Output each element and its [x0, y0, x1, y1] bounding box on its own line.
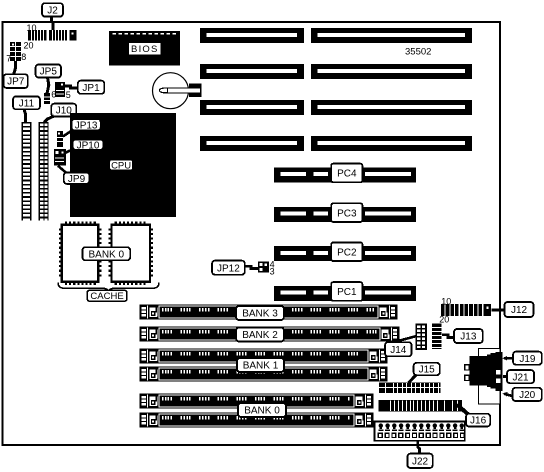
svg-text:J20: J20 — [519, 390, 536, 401]
PCI slot PC2 — [274, 246, 416, 261]
svg-text:6: 6 — [51, 89, 56, 99]
cache SRAM chip right — [109, 222, 154, 285]
CPU text box — [110, 160, 133, 172]
J14 leader — [387, 336, 417, 344]
JP9 leader — [58, 166, 67, 174]
battery clip arm — [160, 88, 201, 93]
svg-text:3: 3 — [270, 267, 275, 277]
label PC4 — [331, 164, 362, 183]
keyboard DIN connector — [465, 352, 503, 391]
connector J12 pin header — [441, 304, 491, 316]
jumper block JP5 — [44, 93, 50, 104]
svg-text:7: 7 — [6, 54, 11, 64]
label JP10 — [73, 139, 104, 151]
connector J11 — [21, 122, 31, 221]
svg-text:PC4: PC4 — [337, 169, 357, 180]
jumper block JP7 — [10, 42, 21, 61]
svg-text:JP7: JP7 — [7, 77, 25, 88]
ISA slot 4 left segment — [200, 136, 304, 151]
svg-text:J13: J13 — [460, 332, 477, 343]
svg-text:BANK 3: BANK 3 — [242, 309, 278, 320]
label J14 — [385, 342, 412, 356]
JP1 leader — [65, 86, 79, 88]
ISA slot 2 right segment — [311, 64, 472, 79]
svg-text:BANK 0: BANK 0 — [244, 406, 280, 417]
label JP9 — [64, 172, 90, 184]
SIMM socket BANK 1 upper — [140, 349, 387, 363]
connector J10 — [39, 122, 49, 221]
svg-text:J12: J12 — [511, 305, 528, 316]
label BANK 0 simm — [238, 403, 286, 417]
JP10 leader — [65, 149, 74, 153]
svg-text:BIOS: BIOS — [131, 44, 159, 55]
ISA slot 1 right segment — [311, 28, 472, 43]
svg-text:20: 20 — [24, 41, 34, 51]
svg-text:20: 20 — [439, 315, 449, 325]
label PC1 — [331, 282, 362, 301]
label J15 — [414, 363, 440, 376]
svg-text:J10: J10 — [56, 106, 73, 117]
svg-text:BANK 2: BANK 2 — [242, 330, 278, 341]
label J11 — [13, 96, 40, 109]
label J16 — [466, 414, 490, 427]
svg-text:10: 10 — [441, 296, 451, 306]
J21 leader — [503, 374, 509, 378]
label J22 — [407, 454, 432, 468]
SIMM socket BANK 0 lower — [140, 413, 373, 427]
label JP5 — [36, 64, 61, 77]
svg-text:PC1: PC1 — [337, 287, 357, 298]
JP12 leader — [245, 266, 259, 268]
connector J14 — [416, 325, 426, 349]
BIOS text — [129, 43, 160, 55]
label CACHE — [87, 290, 127, 302]
connector J13 — [432, 324, 442, 349]
svg-text:BANK 0: BANK 0 — [89, 249, 125, 260]
svg-text:J16: J16 — [470, 416, 487, 427]
label JP7 — [4, 74, 28, 88]
jumper block JP12 — [258, 262, 269, 273]
svg-text:J14: J14 — [390, 345, 407, 356]
svg-text:5: 5 — [66, 90, 71, 100]
label JP1 — [78, 81, 105, 94]
svg-text:JP1: JP1 — [82, 83, 100, 94]
svg-text:J21: J21 — [512, 372, 529, 383]
svg-text:35502: 35502 — [405, 47, 431, 58]
label J19 — [513, 352, 542, 365]
CPU U1 — [70, 113, 176, 217]
SIMM socket BANK 1 lower — [140, 367, 387, 381]
J16 leader — [457, 405, 470, 417]
jumper block JP13 — [57, 131, 63, 147]
svg-text:CPU: CPU — [111, 160, 131, 171]
J11 leader — [24, 109, 26, 122]
label BANK 3 — [236, 306, 284, 320]
J19 leader — [503, 356, 515, 361]
label BANK 2 — [236, 328, 284, 342]
JP13 leader — [63, 130, 74, 137]
svg-text:J11: J11 — [19, 98, 35, 109]
label J12 — [505, 302, 534, 317]
J22 leader — [418, 441, 420, 454]
svg-text:8: 8 — [21, 52, 26, 62]
J20 leader — [503, 392, 514, 397]
label PC3 — [331, 203, 362, 222]
svg-text:JP10: JP10 — [77, 140, 100, 151]
svg-text:JP9: JP9 — [68, 174, 86, 185]
ISA slot 3 right segment — [311, 100, 472, 115]
PCI slot PC4 — [274, 167, 416, 182]
connector J22 — [375, 421, 465, 440]
SIMM socket BANK 3 — [140, 305, 397, 319]
label BANK 0 cache — [82, 247, 130, 260]
label J21 — [507, 370, 534, 383]
ISA slot 4 right segment — [311, 136, 472, 151]
svg-text:PC3: PC3 — [337, 208, 357, 219]
svg-text:J2: J2 — [47, 6, 58, 17]
connector J2 pin header — [28, 14, 77, 41]
SIMM socket BANK 2 — [140, 327, 399, 341]
svg-text:JP5: JP5 — [40, 67, 58, 78]
J10 leader — [44, 116, 54, 123]
svg-text:J22: J22 — [412, 456, 429, 467]
label JP13 — [72, 119, 101, 131]
label JP12 — [212, 261, 245, 275]
label BANK 1 — [237, 358, 284, 372]
keyboard bracket outline — [479, 349, 501, 405]
JP7 leader — [14, 61, 16, 75]
svg-text:J19: J19 — [519, 354, 536, 365]
label J2 — [42, 3, 63, 16]
cache SRAM chip left — [59, 222, 102, 285]
svg-text:JP13: JP13 — [75, 120, 98, 131]
label J20 — [513, 388, 542, 401]
JP5 leader — [47, 78, 49, 94]
label PC2 — [331, 242, 362, 261]
svg-text:J15: J15 — [419, 365, 436, 376]
ISA slot 2 left segment — [200, 64, 304, 79]
jumper block JP10 — [54, 149, 66, 166]
ISA slot 1 left segment — [200, 28, 304, 43]
connector J16 — [379, 400, 463, 412]
battery holder block — [189, 84, 202, 98]
PCI slot PC1 — [274, 286, 416, 301]
svg-text:PC2: PC2 — [337, 247, 357, 258]
label J10 — [51, 104, 76, 117]
label J13 — [454, 329, 483, 343]
svg-text:10: 10 — [27, 23, 37, 33]
ISA slot 3 left segment — [200, 100, 304, 115]
battery B1 — [153, 73, 189, 109]
jumper block JP1 — [55, 82, 65, 97]
connector J15 — [379, 383, 441, 394]
SIMM socket BANK 0 upper — [140, 394, 373, 408]
PCI slot PC3 — [274, 207, 416, 222]
svg-text:CACHE: CACHE — [90, 291, 123, 302]
cache brace — [58, 283, 159, 292]
BIOS ROM chip — [109, 31, 180, 66]
svg-text:BANK 1: BANK 1 — [243, 361, 279, 372]
J13 leader — [442, 335, 455, 338]
svg-text:JP12: JP12 — [217, 263, 240, 274]
J15 leader — [409, 375, 417, 383]
J12 leader — [492, 308, 506, 311]
